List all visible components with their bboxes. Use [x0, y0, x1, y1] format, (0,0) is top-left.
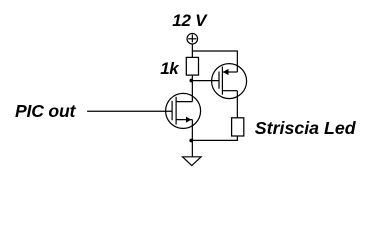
svg-text:Striscia Led: Striscia Led [255, 118, 357, 138]
ground [183, 157, 202, 166]
node B ground junction dot [189, 139, 193, 143]
wire ground node to Striscia Led bottom [191, 136, 237, 140]
wire Q2 source to ground [191, 120, 193, 157]
supply terminal +12V [187, 33, 198, 44]
resistor R1 1k [186, 57, 198, 75]
svg-text:PIC out: PIC out [15, 101, 77, 121]
wire resistor bottom to Q2 drain [191, 75, 193, 102]
transistor Q2 (bottom N-MOSFET) [166, 93, 201, 128]
svg-text:1k: 1k [160, 59, 180, 78]
wire supply branch to Q1 drain [192, 51, 237, 72]
wire Q1 source to Striscia Led box [236, 91, 238, 118]
wire PIC out to Q2 gate [87, 110, 172, 112]
wire supply to resistor top [191, 44, 193, 57]
transistor Q1 (top P-MOSFET) [212, 64, 247, 99]
node A junction dot [189, 79, 193, 83]
svg-text:12 V: 12 V [172, 11, 208, 30]
wire node A to Q1 gate [192, 80, 219, 82]
load Striscia Led box [232, 118, 244, 136]
